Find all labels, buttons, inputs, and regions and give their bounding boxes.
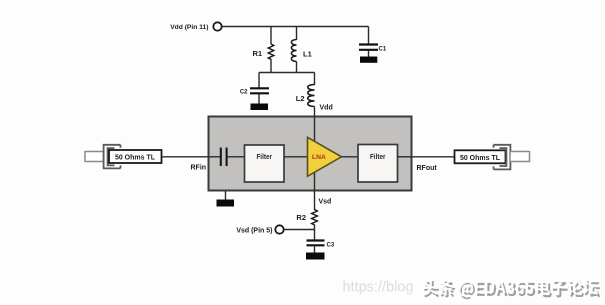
svg-text:LNA: LNA (312, 154, 326, 161)
wire mid rail (259, 72, 315, 74)
svg-text:Vdd: Vdd (320, 105, 333, 112)
wire L1 branch top (296, 27, 298, 41)
capacitor C1 (359, 45, 378, 50)
ground C2 (251, 104, 269, 111)
capacitor C2 (250, 88, 269, 93)
wire RFin (162, 156, 210, 158)
wire C2 branch (258, 73, 260, 89)
terminal Vsd (Pin 5) (275, 225, 283, 233)
svg-text:C3: C3 (327, 242, 335, 248)
connector plug right (510, 152, 530, 162)
wire module input (209, 156, 221, 158)
filter F1 (245, 145, 285, 182)
svg-text:Vsd (Pin 5): Vsd (Pin 5) (236, 228, 272, 235)
svg-text:RFout: RFout (417, 165, 438, 172)
svg-text:C1: C1 (379, 46, 387, 52)
resistor R2 (312, 210, 318, 226)
wire module output (398, 156, 412, 158)
ground C3 (306, 253, 325, 260)
connector bracket left (104, 145, 121, 169)
wire LNA vertical (314, 117, 316, 191)
svg-text:R2: R2 (296, 213, 306, 222)
wire C3 to ground (314, 246, 316, 253)
svg-text:Vdd (Pin 11): Vdd (Pin 11) (170, 24, 208, 31)
capacitor DC block (221, 148, 227, 167)
svg-text:Vsd: Vsd (319, 199, 332, 206)
filter F2 (358, 145, 398, 183)
svg-text:Filter: Filter (370, 154, 386, 161)
transmission line TL2 (455, 150, 506, 163)
wire C2 to ground (258, 94, 260, 104)
connector plug left (85, 152, 104, 162)
svg-text:C2: C2 (240, 89, 248, 95)
wire C1 to ground (368, 51, 370, 58)
transmission line TL1 (109, 150, 162, 163)
wire module ground stub (225, 191, 227, 201)
wire L2 branch top (314, 73, 316, 86)
wire Vsd branch top (314, 191, 316, 211)
wire RFout (412, 156, 455, 158)
svg-text:R1: R1 (253, 49, 263, 58)
svg-text:50 Ohms TL: 50 Ohms TL (460, 155, 501, 162)
watermark logo (422, 278, 600, 299)
LNA amplifier U1 (308, 137, 342, 176)
wire L2 branch bottom (314, 107, 316, 118)
wire L1 branch bottom (296, 62, 298, 73)
wire cap to filter1 (227, 156, 245, 158)
svg-text:RFin: RFin (191, 164, 207, 171)
wire Vsd terminal to junction (284, 229, 315, 231)
svg-text:L1: L1 (303, 50, 312, 59)
ground module (217, 200, 235, 207)
wire R2 to junction (314, 225, 316, 241)
wire filter1 to LNA (284, 156, 308, 158)
inductor L1 (291, 40, 296, 62)
wire R1 branch bottom (270, 59, 272, 73)
svg-text:50 Ohms TL: 50 Ohms TL (115, 155, 156, 162)
svg-text:https://blog: https://blog (343, 280, 414, 296)
capacitor C3 (307, 241, 325, 246)
resistor R1 (268, 44, 273, 59)
inductor L2 (308, 85, 315, 107)
svg-text:Filter: Filter (256, 154, 272, 161)
terminal Vdd (Pin 11) (213, 22, 221, 30)
wire LNA to filter2 (342, 156, 359, 158)
svg-text:L2: L2 (296, 94, 305, 103)
wire top rail (222, 26, 369, 28)
amplifier module block (209, 117, 412, 191)
wire R1 branch top (270, 27, 272, 45)
wire C1 branch (368, 27, 370, 45)
connector bracket right (494, 145, 511, 170)
ground C1 (360, 57, 377, 63)
